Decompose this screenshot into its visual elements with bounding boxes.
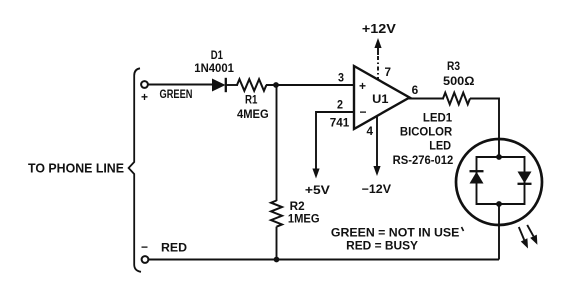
svg-text:RED: RED xyxy=(161,243,187,255)
LED1 inner bridge wires xyxy=(477,157,525,204)
svg-text:GREEN: GREEN xyxy=(160,89,193,101)
diode D1 xyxy=(212,78,226,92)
svg-text:4MEG: 4MEG xyxy=(237,109,269,121)
svg-text:741: 741 xyxy=(330,118,350,130)
svg-text:4: 4 xyxy=(367,126,374,138)
light emission arrow 1 xyxy=(519,227,528,249)
pin 4 wire to -12V xyxy=(376,116,378,168)
junction R2/bottom rail xyxy=(274,257,280,263)
svg-text:3: 3 xyxy=(338,73,344,85)
svg-text:LED: LED xyxy=(429,141,451,153)
wire LED1 bottom to rail xyxy=(498,204,500,260)
junction bottom of LED bridge xyxy=(496,201,502,207)
svg-text:TO PHONE LINE: TO PHONE LINE xyxy=(28,162,124,176)
svg-text:GREEN = NOT IN USE: GREEN = NOT IN USE xyxy=(331,226,460,240)
svg-text:−: − xyxy=(359,105,366,119)
svg-text:RS-276-012: RS-276-012 xyxy=(393,155,454,167)
LED1 right diode (points down) xyxy=(518,172,532,184)
wire R3 to LED1 top xyxy=(470,99,499,158)
brace for TO PHONE LINE xyxy=(129,68,141,271)
wire U1 output (pin 6) to R3 xyxy=(408,98,444,100)
wire terminal+ to D1 anode xyxy=(148,84,213,86)
wire R1 to U1 pin3 xyxy=(266,84,355,86)
svg-text:2: 2 xyxy=(337,100,343,112)
-12V supply arrowhead xyxy=(373,166,380,176)
svg-text:BICOLOR: BICOLOR xyxy=(400,127,453,139)
LED1 circle outline xyxy=(456,139,542,225)
terminal + (tip, GREEN) xyxy=(141,81,148,88)
+5V supply arrowhead xyxy=(312,169,319,179)
svg-text:−: − xyxy=(141,240,148,254)
resistor R1 xyxy=(237,79,266,91)
svg-text:+5V: +5V xyxy=(305,183,330,197)
svg-text:LED1: LED1 xyxy=(423,113,453,125)
junction top of LED bridge xyxy=(496,154,502,160)
svg-text:+12V: +12V xyxy=(362,22,397,36)
junction node R1/R2 xyxy=(273,82,279,88)
svg-text:R1: R1 xyxy=(245,95,258,107)
svg-text:D1: D1 xyxy=(211,50,224,62)
svg-text:−12V: −12V xyxy=(362,182,391,196)
svg-text:R3: R3 xyxy=(447,61,460,73)
wire pin2 to +5V branch xyxy=(316,112,355,170)
svg-text:1MEG: 1MEG xyxy=(288,214,320,226)
+12V supply arrow (pin 7) xyxy=(374,38,381,80)
bottom rail wire xyxy=(149,259,500,261)
svg-text:RED = BUSY: RED = BUSY xyxy=(346,239,418,253)
wire D1 cathode to R1 xyxy=(226,84,238,86)
LED1 left diode (points up) xyxy=(470,171,484,183)
svg-text:1N4001: 1N4001 xyxy=(194,63,234,75)
terminal - (ring, RED) xyxy=(142,256,149,263)
svg-text:500Ω: 500Ω xyxy=(443,76,475,88)
stray tick after USE xyxy=(462,227,464,231)
resistor R2 (vertical branch) xyxy=(271,86,282,260)
svg-text:+: + xyxy=(141,90,148,104)
svg-text:6: 6 xyxy=(412,85,419,97)
svg-text:+: + xyxy=(359,79,366,93)
svg-text:R2: R2 xyxy=(290,201,305,213)
svg-text:U1: U1 xyxy=(372,94,389,106)
svg-text:7: 7 xyxy=(385,67,392,79)
resistor R3 xyxy=(443,93,470,105)
light emission arrow 2 xyxy=(527,225,537,245)
op-amp U1 triangle xyxy=(354,66,410,129)
